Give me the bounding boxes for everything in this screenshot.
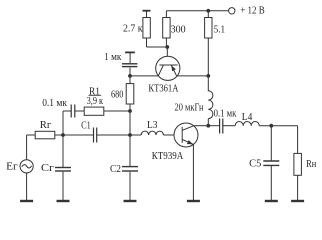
svg-text:Rг: Rг: [40, 120, 52, 131]
svg-text:L4: L4: [242, 112, 253, 123]
svg-text:0.1 мк: 0.1 мк: [214, 109, 237, 120]
svg-text:5.1: 5.1: [214, 25, 226, 36]
svg-text:Cг: Cг: [41, 163, 54, 174]
svg-text:L3: L3: [147, 120, 158, 131]
svg-text:0.1 мк: 0.1 мк: [42, 98, 67, 109]
svg-text:КТ361А: КТ361А: [148, 83, 179, 94]
svg-text:3,9 к: 3,9 к: [87, 96, 104, 107]
svg-text:300: 300: [171, 25, 186, 36]
svg-text:Rн: Rн: [306, 159, 317, 170]
svg-text:1 мк: 1 мк: [104, 52, 121, 63]
svg-text:C5: C5: [249, 159, 261, 170]
svg-text:Eг: Eг: [6, 162, 18, 173]
svg-text:C1: C1: [81, 121, 91, 132]
svg-text:C2: C2: [110, 164, 121, 175]
svg-text:20 мкГн: 20 мкГн: [175, 103, 205, 114]
svg-text:680: 680: [111, 90, 123, 101]
svg-text:2.7 к: 2.7 к: [123, 24, 143, 35]
svg-text:КТ939А: КТ939А: [152, 151, 184, 162]
svg-text:+ 12 В: + 12 В: [240, 5, 265, 16]
